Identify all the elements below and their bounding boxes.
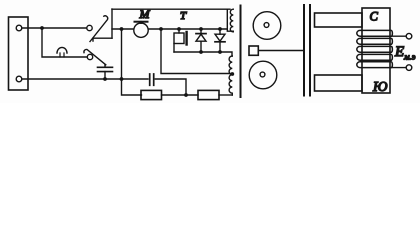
node E junction bbox=[159, 27, 163, 31]
wire top rail bbox=[22, 27, 86, 29]
node D junction bbox=[120, 27, 124, 31]
transformer T primary winding bbox=[227, 9, 233, 31]
core limb C bbox=[362, 8, 390, 93]
wire stub S1 bbox=[93, 38, 112, 41]
wire coil output bottom bbox=[392, 67, 407, 69]
svg-text:Ю: Ю bbox=[372, 80, 388, 95]
diode VD2 bbox=[219, 29, 221, 34]
recording head bbox=[249, 46, 258, 55]
wire tap line bbox=[161, 29, 230, 74]
terminal output bottom bbox=[406, 65, 412, 71]
node B junction bbox=[120, 77, 124, 81]
wire coil output top bbox=[392, 35, 407, 37]
magnetic tape bbox=[303, 5, 305, 96]
resistor R2 bbox=[198, 90, 219, 99]
node C1 junction bbox=[103, 77, 107, 81]
switch S1 blade bbox=[90, 16, 108, 42]
transformer T secondary winding bbox=[229, 56, 232, 95]
wire main rail bbox=[112, 28, 134, 30]
wire bottom rail bbox=[22, 78, 122, 80]
resistor R1 bbox=[141, 90, 162, 99]
node I junction bbox=[184, 93, 188, 97]
switch S2 blade bbox=[84, 49, 106, 64]
wire riser bbox=[111, 9, 113, 38]
capacitor C1 bbox=[104, 65, 106, 68]
node F junction bbox=[177, 27, 181, 31]
reel upper bbox=[253, 12, 281, 40]
pole piece top bar bbox=[315, 13, 363, 27]
wire R2 to winding bbox=[219, 94, 232, 96]
vibrator contact K bbox=[178, 29, 180, 33]
node H junction bbox=[218, 27, 222, 31]
wire rectifier rail bbox=[174, 52, 232, 56]
push button Kn bbox=[57, 47, 67, 53]
wire top feed line bbox=[112, 8, 230, 10]
node tap junction bbox=[230, 72, 234, 76]
switch S2 contact bbox=[87, 54, 92, 59]
terminal output top bbox=[406, 33, 412, 39]
reel lower bbox=[249, 61, 277, 89]
svg-text:C: C bbox=[370, 10, 379, 24]
battery block (left terminal box) bbox=[9, 17, 29, 90]
node G2 junction bbox=[199, 50, 203, 54]
capacitor C2 bbox=[122, 78, 149, 80]
pole piece bottom bar bbox=[315, 75, 363, 91]
terminal top bbox=[16, 25, 22, 31]
transformer T core bbox=[240, 6, 242, 98]
svg-text:T: T bbox=[180, 10, 187, 22]
switch S1 contact bbox=[87, 25, 92, 30]
motor M bbox=[134, 23, 148, 37]
wire vertical D to B bbox=[122, 29, 142, 95]
node G junction bbox=[199, 27, 203, 31]
wire main rail right bbox=[148, 28, 227, 30]
svg-text:M: M bbox=[139, 7, 151, 21]
terminal bottom bbox=[16, 76, 22, 82]
wire R1 to R2 bbox=[162, 94, 199, 96]
node H2 junction bbox=[218, 50, 222, 54]
wire head to tape bbox=[258, 50, 303, 52]
wire bottom branch bbox=[140, 94, 143, 96]
wire branch down from node A bbox=[42, 28, 87, 57]
pickup coil bbox=[357, 30, 393, 67]
diode VD1 bbox=[200, 29, 202, 34]
node A junction bbox=[40, 26, 44, 30]
